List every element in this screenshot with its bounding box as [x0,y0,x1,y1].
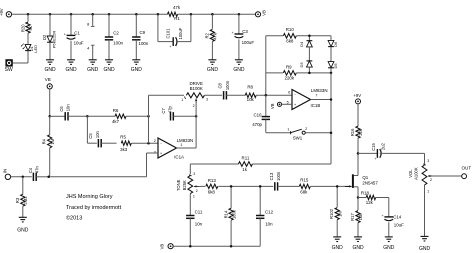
svg-text:12k: 12k [358,213,363,221]
potentiometer VOL A100K [408,153,433,236]
svg-text:OUT: OUT [461,165,471,170]
resistor R20 5k [20,14,33,44]
svg-text:B100K: B100K [190,86,203,91]
wire R13 to C13 [218,185,273,187]
+9V supply terminal at Q1 [353,93,361,104]
svg-text:1M: 1M [337,211,342,217]
ground below D2 [44,60,56,73]
ground below C2 [103,60,115,73]
ground below pin 4 [87,60,99,73]
capacitor C8 100n [218,80,230,99]
svg-text:1M: 1M [50,138,55,144]
capacitor C6 10n [50,104,88,121]
capacitor C11 10n [186,209,203,246]
svg-text:D3: D3 [299,62,304,68]
node IC1B output junction [330,98,333,101]
svg-text:C8: C8 [218,82,223,88]
resistor R11 1k [238,155,252,172]
diode D5 [328,47,338,73]
svg-text:R16: R16 [350,128,355,136]
wire feedback bus [148,95,150,143]
svg-text:GND: GND [383,245,395,251]
capacitor C15 2u2 [358,142,425,161]
svg-text:2: 2 [193,104,195,108]
svg-text:R9: R9 [286,64,292,69]
svg-text:10uF: 10uF [74,41,84,46]
wire +9V rail [12,13,256,15]
svg-text:47n: 47n [35,165,40,173]
svg-text:R5: R5 [120,135,126,140]
svg-text:IN: IN [3,169,8,173]
svg-text:B25K: B25K [182,180,187,190]
ground below C1 [65,60,77,73]
svg-text:GND: GND [207,67,219,73]
wire IC1A noninverting input to input node [50,153,158,177]
svg-text:100n: 100n [139,41,149,46]
svg-text:R2: R2 [205,32,210,38]
VB bias terminal at IC1B pin5 [270,102,292,109]
svg-text:D5: D5 [333,63,338,69]
node IC1B inverting input junction [265,94,268,97]
node bottom rail junctions [189,245,232,248]
node bias junction [48,115,51,118]
svg-text:2: 2 [196,189,198,193]
svg-text:©2013: ©2013 [66,214,82,221]
svg-text:R13: R13 [208,178,217,183]
svg-text:+: + [232,31,234,35]
transistor Q1 2N5457 JFET [345,153,378,197]
resistor R16 22k [350,104,363,153]
wire C5 branch riser [87,116,97,143]
svg-text:100n: 100n [276,171,281,181]
resistor R9 220k [283,64,296,80]
svg-text:1: 1 [287,128,289,132]
node diode string junctions [308,35,311,75]
svg-text:+9V: +9V [0,8,4,16]
svg-text:VB: VB [270,103,275,109]
svg-text:4k7: 4k7 [112,119,120,124]
svg-text:SW: SW [5,67,13,73]
svg-text:C1: C1 [74,31,80,36]
wire R5 to inverting input [131,142,158,144]
svg-text:R20: R20 [20,24,25,32]
ground below VOL pot [419,236,431,252]
svg-text:R14: R14 [223,210,228,218]
svg-text:1: 1 [427,190,429,194]
value label C10 470p [252,112,262,127]
svg-text:TONE: TONE [176,179,181,191]
svg-text:C5: C5 [88,133,93,139]
svg-text:GND: GND [65,67,77,73]
wire tone wiper line [199,185,205,187]
resistor R15 68k [278,178,350,195]
svg-text:R11: R11 [242,155,250,160]
node switch bus junction [330,131,333,134]
svg-text:D2: D2 [42,34,47,40]
svg-text:47k: 47k [173,5,181,10]
wire feedback left bus [266,36,283,96]
svg-text:6k8: 6k8 [286,39,294,44]
VB bias terminal mid-left [45,77,53,116]
resistor R14 100k [223,186,236,246]
svg-text:2: 2 [305,127,307,131]
svg-text:C9: C9 [140,30,146,35]
switch SW1 [287,127,307,141]
svg-text:C15: C15 [371,142,376,150]
capacitor C12 10n [256,186,274,246]
resistor R1 47k [168,5,181,21]
svg-text:Traced by irmodermott: Traced by irmodermott [66,205,122,211]
svg-text:47k: 47k [213,32,218,40]
op-amp IC1A LM833N [154,138,193,160]
wire volume wiper to output jack [433,175,461,177]
svg-text:6: 6 [288,90,290,94]
capacitor C1 10uF [64,14,84,60]
svg-text:R1: R1 [174,16,180,21]
svg-text:GND: GND [352,245,364,251]
svg-text:100uF: 100uF [242,40,255,45]
svg-text:C11: C11 [195,209,203,214]
resistor R6 4k7 [87,108,148,124]
svg-text:GND: GND [103,67,115,73]
ground below R17 [352,237,364,251]
node R102 gate junction [336,185,339,188]
svg-text:+: + [169,45,171,49]
svg-text:100n: 100n [225,80,230,90]
svg-text:VOL: VOL [408,169,413,178]
svg-text:Q1: Q1 [362,175,368,180]
resistor R8 10k [226,85,292,103]
wire R10 to right bus [296,35,331,37]
ground below C3 [233,60,245,73]
svg-text:C13: C13 [269,172,274,180]
svg-text:5: 5 [287,100,289,104]
svg-text:R17: R17 [350,212,355,220]
svg-text:D6: D6 [333,41,338,47]
svg-text:1: 1 [193,194,195,198]
wire R9 to right bus [296,72,331,74]
svg-text:GND: GND [419,246,431,252]
node rail junctions [27,13,240,16]
node source junction [357,196,360,199]
svg-text:GND: GND [233,67,245,73]
svg-text:C2: C2 [113,31,119,36]
diode D3 [299,47,312,73]
svg-text:2: 2 [430,178,432,182]
SW footswitch terminal [5,59,13,73]
resistor R17 12k [350,198,363,237]
node R14 top junction [230,185,233,188]
capacitor C13 100n [269,171,281,191]
svg-text:LED: LED [33,45,38,53]
capacitor C14 10uF [382,198,405,237]
svg-text:100n: 100n [113,41,123,46]
svg-text:R4: R4 [42,138,47,144]
svg-text:2M2: 2M2 [23,196,28,205]
svg-text:IC1B: IC1B [311,103,321,108]
svg-text:100uF: 100uF [178,27,183,39]
wire LED to footswitch [13,62,28,64]
svg-text:P6KE12R: P6KE12R [52,31,57,49]
LED D1 [21,44,38,63]
svg-text:SW1: SW1 [293,135,303,140]
capacitor C5 10n [88,130,117,147]
wire IC1A output [177,116,197,148]
svg-text:10n: 10n [265,221,273,226]
svg-text:GND: GND [44,67,56,73]
svg-text:220k: 220k [285,76,295,81]
svg-text:3: 3 [206,97,208,101]
capacitor C3 100uF [232,14,255,60]
svg-text:VB: VB [45,77,51,82]
svg-text:D4: D4 [299,41,304,47]
svg-text:10k: 10k [247,97,255,102]
svg-text:R10: R10 [286,27,295,32]
resistor R4 1M [42,116,55,177]
svg-text:C7: C7 [161,108,166,114]
ground below R2 [207,60,219,73]
svg-text:100k: 100k [231,209,236,219]
node R3 junction [22,176,25,179]
wire input [11,176,32,178]
node right bus junction at R9 [330,72,333,75]
OUT output jack [461,165,471,178]
capacitor C4 47n [28,165,49,181]
svg-text:3: 3 [193,172,195,176]
+9V input jack [0,8,12,17]
svg-text:LM833N: LM833N [311,88,328,93]
svg-text:+: + [64,32,66,36]
svg-text:2u2: 2u2 [380,142,385,150]
capacitor C7 47p [161,105,196,120]
svg-text:3: 3 [427,159,429,163]
svg-text:LM833N: LM833N [177,138,194,143]
svg-text:6k8: 6k8 [208,190,216,195]
capacitor C9 100n [132,14,149,60]
svg-text:12k: 12k [366,200,374,205]
svg-text:JHS Morning Glory: JHS Morning Glory [66,194,113,200]
ground below C14 [383,237,395,251]
svg-text:C3: C3 [242,29,248,34]
svg-text:R8: R8 [247,85,253,90]
resistor R3 2M2 [15,177,28,218]
svg-text:10n: 10n [195,221,203,226]
capacitor C2 100n [105,14,124,60]
svg-text:2: 2 [154,139,156,143]
node C4 R4 junction [47,176,50,179]
wire IC1B output to right bus [311,73,332,164]
IN input jack [3,169,11,180]
svg-text:10n: 10n [95,130,100,138]
svg-text:IC1A: IC1A [174,155,184,160]
ground below C9 [131,60,143,73]
svg-text:R15: R15 [300,178,309,183]
resistor R2 47k [205,14,218,60]
svg-text:3k3: 3k3 [120,147,128,152]
svg-text:C10: C10 [253,112,262,117]
wire R11 line from bus to tone pot [190,164,331,174]
node feedback bus junctions [147,115,150,144]
node C12 top junction [259,185,262,188]
svg-text:R6: R6 [113,108,119,113]
svg-text:7: 7 [315,93,317,97]
wire switch to right bus [305,132,331,134]
svg-text:68k: 68k [300,190,308,195]
svg-text:22k: 22k [358,128,363,136]
svg-text:+9V: +9V [353,93,361,98]
svg-text:C6: C6 [59,106,64,112]
svg-text:47p: 47p [168,105,173,113]
ground below R3 [17,217,29,233]
VB output terminal [255,10,266,17]
svg-text:GND: GND [17,228,29,234]
svg-text:A100K: A100K [414,167,419,180]
VB bias terminal bottom [160,244,174,250]
svg-text:GND: GND [131,67,143,73]
wire C10 to switch [266,119,291,132]
svg-text:1: 1 [180,143,182,147]
node drain junction [357,152,360,155]
ground below R102 [332,237,344,251]
svg-text:R18: R18 [361,190,370,195]
svg-text:C4: C4 [28,167,33,173]
svg-text:VB: VB [160,244,165,250]
diode D2 P6KE12R [42,14,57,60]
svg-text:8: 8 [87,22,89,27]
diode D6 [328,36,338,47]
capacitor C10 470p [262,95,270,119]
svg-text:R102: R102 [329,208,334,219]
wire drive wiper to feedback line [195,104,197,117]
svg-text:C101: C101 [166,28,171,39]
potentiometer DRIVE B100K [149,81,209,108]
resistor R10 6k8 [283,27,296,43]
wire bottom VB rail [173,245,260,247]
title text block [66,194,122,221]
resistor R18 12k [358,190,389,205]
svg-text:470p: 470p [252,122,262,127]
IC1 power pins 8 and 4 [87,14,94,60]
svg-text:+: + [382,214,384,218]
capacitor C101 100uF bypass [158,14,191,49]
svg-text:R3: R3 [15,197,20,203]
svg-text:GND: GND [87,67,99,73]
op-amp IC1B LM833N [287,88,328,110]
resistor R13 6k8 [206,178,218,195]
diode D4 [299,36,312,47]
svg-text:10uF: 10uF [394,222,404,227]
svg-text:+: + [375,157,377,161]
svg-text:C12: C12 [265,209,274,214]
node wiper junction on feedback line [195,115,198,118]
wire drive pot pin3 to C8 [204,94,222,96]
svg-text:1k: 1k [242,167,247,172]
svg-text:C14: C14 [393,214,402,219]
resistor R5 3k3 [120,135,131,152]
potentiometer TONE B25K [176,172,199,215]
svg-text:10n: 10n [66,104,71,112]
node C5 branch junction [86,115,89,118]
svg-text:VB: VB [261,10,266,16]
resistor R102 1M [329,186,342,237]
svg-text:GND: GND [332,245,344,251]
svg-text:1: 1 [181,98,183,102]
svg-text:2N5457: 2N5457 [362,181,378,186]
